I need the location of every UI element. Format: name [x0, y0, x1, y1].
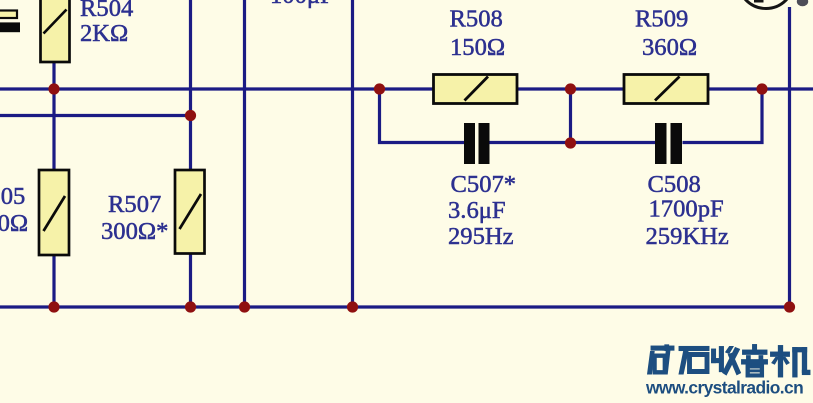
wire vertical through R504/R505 x=54: [52, 61, 55, 307]
capacitor C508 plates: [655, 123, 682, 164]
junction dot node B top (570.5,89): [565, 83, 576, 94]
wire mid-left branch y=115.5: [0, 114, 191, 117]
svg-text:2KΩ: 2KΩ: [80, 20, 128, 47]
resistor R507 (vertical): [175, 170, 205, 254]
junction dot mid-left branch (190.5,115.5): [185, 110, 196, 121]
svg-text:360Ω: 360Ω: [642, 34, 697, 61]
svg-text:R505: R505: [0, 183, 25, 210]
svg-text:C507*: C507*: [451, 171, 517, 198]
svg-text:1700pF: 1700pF: [649, 196, 724, 223]
watermark logo glyph yin: [742, 345, 768, 378]
watermark logo glyph shi: [679, 346, 709, 374]
junction dot node B bottom (570.5,143): [565, 137, 576, 148]
resistor R508 (horizontal): [434, 75, 518, 104]
wire vertical through R507 x=190.5: [189, 0, 192, 307]
transistor V502 emitter arrow fragment: [797, 0, 808, 6]
wire bottom ground bus y=307: [0, 305, 790, 308]
wire riser node B x=570.5: [569, 89, 572, 143]
svg-text:3.6μF: 3.6μF: [448, 197, 506, 224]
wire loop2 bottom right segment and riser to node C: [683, 89, 763, 143]
wire top rail (node net along y=89): [0, 87, 813, 90]
resistor R509 (horizontal): [624, 75, 708, 104]
watermark logo glyph kuang: [648, 345, 675, 374]
resistor R505 (vertical): [39, 170, 69, 255]
wire loop1 bottom right segment to node B riser: [490, 141, 571, 144]
svg-text:100μF: 100μF: [270, 0, 334, 9]
wire loop1 left drop at x=379.5: [380, 89, 465, 143]
wire vertical x=244.5: [243, 0, 246, 307]
capacitor C503 electrolytic (partial, top-left) positive plate: [0, 11, 17, 19]
svg-text:150Ω: 150Ω: [450, 34, 505, 61]
svg-text:R504: R504: [80, 0, 133, 22]
svg-text:259KHz: 259KHz: [646, 223, 729, 250]
junction dot node C (762,89): [756, 83, 767, 94]
junction dot bus end x=789.5: [784, 301, 795, 312]
svg-text:295Hz: 295Hz: [448, 223, 514, 250]
capacitor C503 electrolytic negative plate: [0, 22, 20, 32]
svg-text:300Ω*: 300Ω*: [101, 218, 168, 245]
transistor V502 circle (partial, top-right): [738, 0, 794, 9]
watermark logo glyph ji: [771, 346, 811, 378]
junction dot bus x=54: [48, 301, 59, 312]
svg-text:C508: C508: [648, 171, 701, 198]
svg-text:R507: R507: [108, 191, 161, 218]
junction dot bus x=244.5: [239, 301, 250, 312]
svg-text:www.crystalradio.cn: www.crystalradio.cn: [645, 378, 803, 398]
svg-text:R509: R509: [635, 6, 688, 33]
wire vertical from transistor x=789.5: [788, 7, 791, 307]
junction dot node at R504 bottom (54,89): [48, 83, 59, 94]
svg-text:300Ω: 300Ω: [0, 210, 28, 237]
wire vertical x=352.5: [351, 0, 354, 307]
junction dot node A (379.5,89): [374, 83, 385, 94]
resistor R504 (vertical, top cut): [41, 0, 70, 62]
svg-text:R508: R508: [450, 6, 503, 33]
wire loop2 bottom left segment: [571, 141, 656, 144]
transistor V502 base bar fragment: [754, 0, 764, 3]
junction dot bus x=190.5: [185, 301, 196, 312]
watermark logo glyph shou: [712, 347, 741, 376]
capacitor C507 plates: [464, 123, 490, 164]
junction dot bus x=352.5: [347, 301, 358, 312]
